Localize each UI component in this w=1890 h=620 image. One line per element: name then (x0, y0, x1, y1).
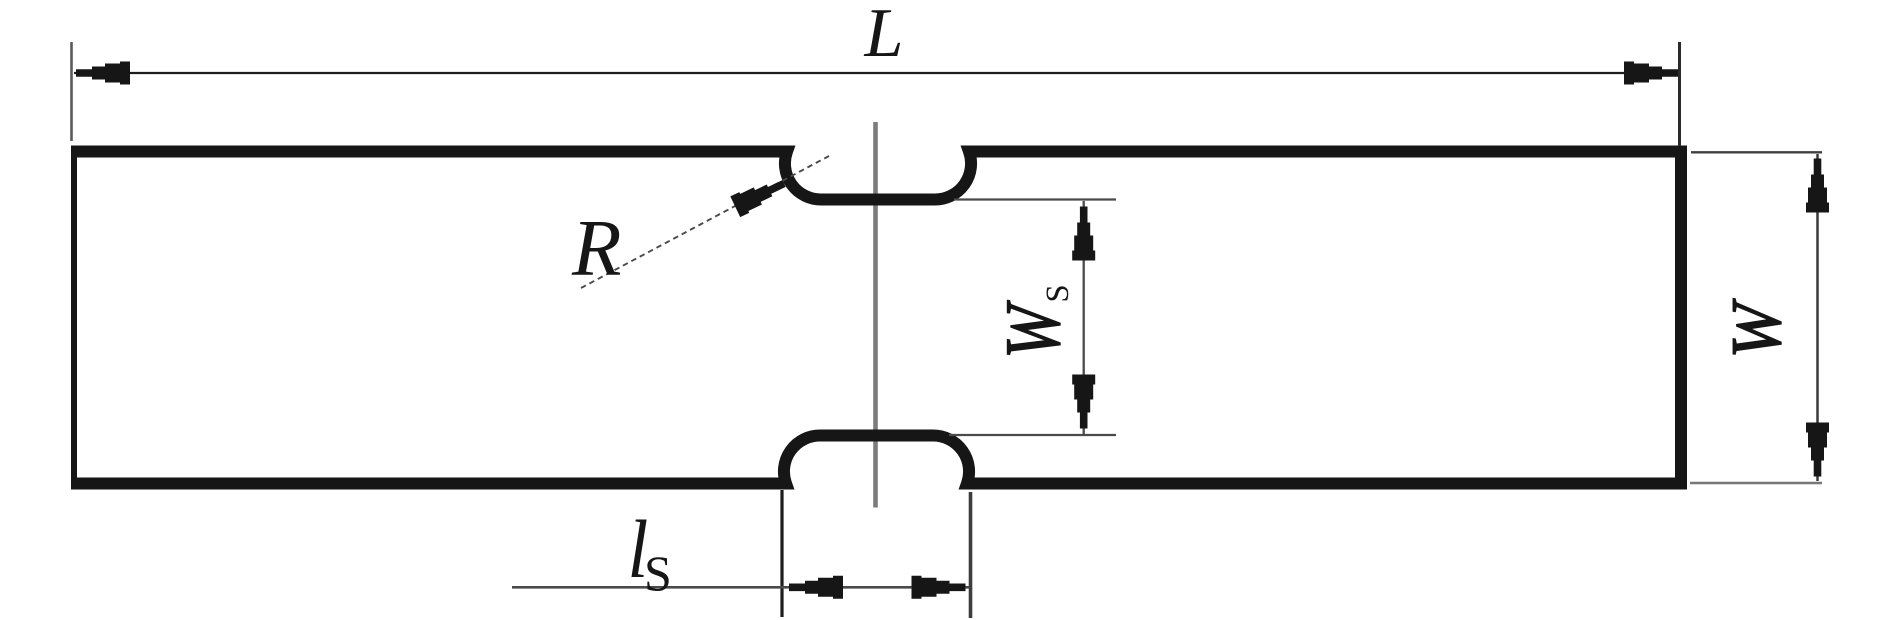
svg-text:W: W (1717, 298, 1796, 359)
svg-text:W: W (990, 300, 1076, 358)
svg-text:S: S (644, 545, 672, 601)
svg-text:R: R (571, 203, 621, 293)
svg-text:L: L (864, 0, 904, 72)
svg-text:S: S (1040, 284, 1076, 302)
